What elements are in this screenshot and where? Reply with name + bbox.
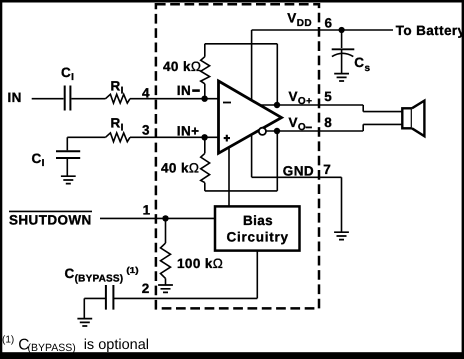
svg-text:VDD: VDD: [287, 11, 312, 30]
svg-text:SHUTDOWN: SHUTDOWN: [9, 213, 92, 228]
svg-text:6: 6: [325, 16, 333, 31]
svg-text:IN: IN: [177, 83, 191, 98]
svg-text:CI: CI: [32, 151, 45, 169]
svg-text:40 kΩ: 40 kΩ: [163, 59, 201, 74]
svg-text:To Battery: To Battery: [396, 23, 464, 38]
svg-text:5: 5: [324, 89, 332, 104]
svg-text:7: 7: [323, 162, 331, 177]
svg-text:1: 1: [143, 203, 151, 218]
svg-text:4: 4: [142, 86, 150, 101]
svg-text:GND: GND: [283, 163, 314, 178]
svg-text:3: 3: [142, 122, 150, 137]
svg-text:40 kΩ: 40 kΩ: [161, 161, 199, 176]
svg-text:CI: CI: [61, 65, 74, 83]
svg-text:(1): (1): [2, 335, 14, 346]
svg-text:8: 8: [324, 115, 332, 130]
svg-text:2: 2: [142, 281, 150, 296]
svg-text:is optional: is optional: [84, 337, 149, 353]
svg-text:Cs: Cs: [354, 55, 370, 74]
svg-text:C(BYPASS)(1): C(BYPASS)(1): [65, 265, 139, 285]
svg-text:RI: RI: [111, 116, 124, 134]
svg-text:IN: IN: [8, 90, 22, 105]
svg-text:100 kΩ: 100 kΩ: [177, 256, 223, 271]
svg-text:Circuitry: Circuitry: [226, 230, 288, 245]
svg-text:IN+: IN+: [177, 123, 200, 138]
svg-text:Bias: Bias: [243, 213, 273, 228]
svg-text:(BYPASS): (BYPASS): [28, 342, 76, 354]
